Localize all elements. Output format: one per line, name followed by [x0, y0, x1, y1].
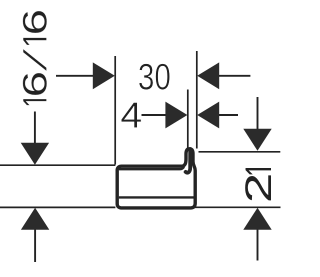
dim 30: left arrowhead pointing right at line A [93, 62, 115, 89]
dim 16/16: down arrow tail [34, 112, 36, 145]
profile outer contour with top-right tab [117, 149, 195, 208]
dim 30: right arrow tail [218, 75, 250, 77]
dim 4: left arrow tail [142, 114, 168, 116]
left dim line upper (top of 16 span) [0, 164, 115, 166]
dim 30: right arrowhead pointing left at line C [197, 62, 219, 89]
extension line C (right edge of profile) [196, 51, 198, 149]
dim 30: label [139, 64, 170, 90]
profile inner hook curl [186, 149, 191, 173]
right dim line lower (bottom of 21 span) [194, 206, 281, 208]
dim 4: right arrow tail [218, 114, 238, 116]
dim 30: left arrow tail [56, 75, 95, 77]
dim 21: down arrowhead [243, 129, 271, 151]
dim 4: label [121, 102, 141, 127]
dim 21: label (rotated) [245, 168, 271, 200]
extension line B (hook inner) [187, 90, 189, 150]
profile inner bottom line [119, 196, 194, 198]
dim 16/16: label (rotated) [23, 11, 47, 105]
dim 21: down arrow tail [257, 97, 259, 130]
profile inner top line [119, 167, 184, 169]
dim 16/16: up arrowhead [21, 208, 49, 230]
dim 16/16: down arrowhead [21, 143, 49, 165]
dim 4: left arrowhead pointing right at line B [165, 102, 187, 129]
dim 16/16: up arrow tail [34, 229, 36, 263]
left dim line lower (bottom of 16 span) [0, 206, 115, 208]
dim 21: up arrowhead [243, 208, 271, 230]
right dim line upper (top of 21 span) [199, 151, 281, 153]
extension line A (left edge of profile) [114, 56, 116, 165]
dim 4: right arrowhead pointing left at line C [197, 102, 219, 129]
dim 21: up arrow tail [257, 229, 259, 261]
